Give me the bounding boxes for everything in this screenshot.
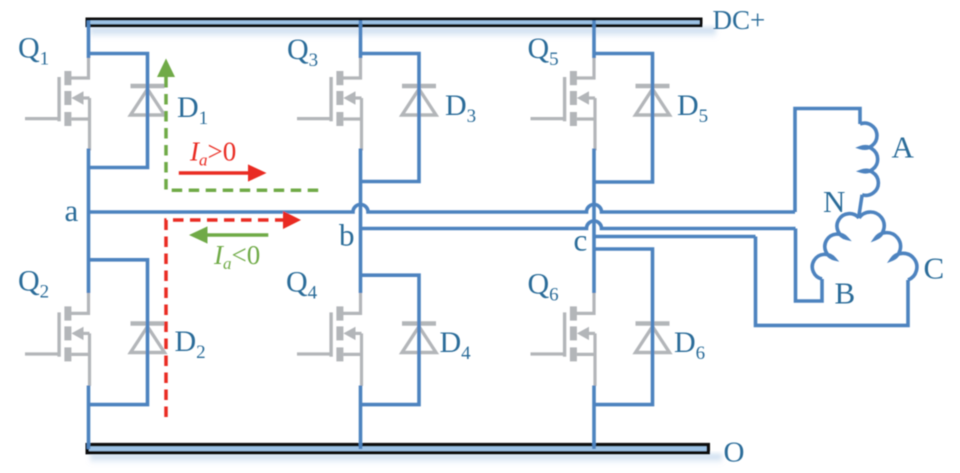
svg-text:C: C — [924, 251, 945, 286]
svg-text:N: N — [823, 184, 845, 219]
svg-text:B: B — [835, 276, 856, 311]
svg-text:c: c — [574, 223, 588, 258]
svg-text:Ia>0: Ia>0 — [189, 137, 236, 170]
svg-text:Ia<0: Ia<0 — [213, 240, 260, 273]
svg-text:b: b — [339, 218, 355, 253]
svg-text:O: O — [724, 437, 745, 469]
svg-text:DC+: DC+ — [713, 5, 766, 35]
svg-text:A: A — [892, 130, 915, 165]
svg-text:a: a — [65, 193, 79, 228]
